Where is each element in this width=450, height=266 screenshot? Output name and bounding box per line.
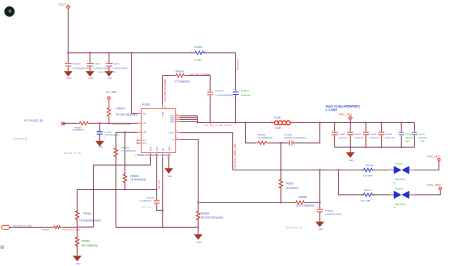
svg-text:1: 1 bbox=[191, 51, 192, 53]
svg-text:PW_PXGA: PW_PXGA bbox=[236, 59, 239, 70]
svg-text:2: 2 bbox=[410, 193, 411, 195]
svg-text:2: 2 bbox=[113, 159, 114, 161]
svg-text:PD0009: PD0009 bbox=[395, 188, 404, 190]
svg-text:PW_PGOOD_1V05: PW_PGOOD_1V05 bbox=[63, 229, 81, 231]
svg-text:GND: GND bbox=[88, 78, 93, 80]
svg-text:22UF 6.3V: 22UF 6.3V bbox=[385, 137, 395, 139]
svg-text:2: 2 bbox=[154, 206, 155, 208]
svg-text:PL0002: PL0002 bbox=[194, 47, 203, 49]
svg-text:Close to IC: Close to IC bbox=[64, 151, 81, 155]
resistor R62 divider lower bbox=[74, 227, 98, 256]
capacitor C74 10uF (blue, in line) bbox=[233, 89, 252, 98]
svg-text:GND: GND bbox=[197, 242, 202, 244]
inductor L2 PL0002 bbox=[191, 47, 206, 62]
wire bank bottom rail bbox=[335, 146, 415, 148]
resistor R148 row1 bbox=[361, 165, 375, 177]
capacitor bank C87 bbox=[378, 123, 394, 148]
wire VOUT pin to row1 bbox=[180, 133, 439, 170]
svg-text:PXG_VDD: PXG_VDD bbox=[427, 183, 440, 187]
capacitor bank C83 bbox=[347, 123, 363, 148]
wire VIN drop to IC top pin bbox=[161, 76, 163, 105]
resistor R61 divider upper bbox=[74, 209, 101, 227]
svg-text:2: 2 bbox=[233, 97, 234, 99]
svg-text:1: 1 bbox=[65, 61, 66, 63]
resistor R45 4.7ohm bbox=[174, 72, 211, 84]
svg-text:Close to IC: Close to IC bbox=[141, 206, 152, 209]
svg-text:VOS: VOS bbox=[157, 146, 159, 151]
no-connect X marks NC1 NC2 bbox=[137, 140, 139, 144]
svg-text:DOWN CONVERTER 1.05V@4A: DOWN CONVERTER 1.05V@4A bbox=[137, 154, 172, 157]
svg-text:PR0061: PR0061 bbox=[83, 213, 92, 215]
svg-text:3: 3 bbox=[139, 122, 140, 124]
svg-text:0.47UF(0603)16V: 0.47UF(0603)16V bbox=[72, 68, 90, 70]
capacitor C75 en (blue) bbox=[96, 123, 120, 148]
svg-text:L/M: L/M bbox=[143, 132, 147, 134]
svg-text:1: 1 bbox=[113, 146, 114, 148]
svg-text:PR0060: PR0060 bbox=[299, 197, 308, 199]
svg-text:PC0087: PC0087 bbox=[385, 134, 392, 136]
svg-text:12: 12 bbox=[176, 131, 178, 133]
capacitor bank C110 (blue) bbox=[399, 123, 414, 148]
svg-text:1: 1 bbox=[286, 141, 287, 143]
svg-text:2: 2 bbox=[293, 141, 294, 143]
wire SW node line bbox=[197, 122, 414, 124]
svg-text:PVIN: PVIN bbox=[162, 111, 164, 116]
svg-text:TB OHM (TBD)(0402): TB OHM (TBD)(0402) bbox=[116, 114, 139, 116]
svg-text:PR0049: PR0049 bbox=[121, 147, 130, 149]
wire VCC to EN pin bbox=[132, 53, 138, 114]
resistor R60 10K bbox=[294, 197, 315, 208]
svg-text:TB OHM (TBD)(0402): TB OHM (TBD)(0402) bbox=[201, 217, 224, 219]
svg-text:PW_PXGVDD_EN: PW_PXGVDD_EN bbox=[112, 124, 131, 126]
page corner mark bbox=[1, 246, 5, 250]
wire gnd rail bottom bbox=[116, 226, 198, 228]
wire SW pin bundle bbox=[180, 116, 198, 123]
capacitor bank C84 bbox=[363, 123, 379, 148]
svg-text:6: 6 bbox=[167, 158, 168, 160]
capacitor C81 22pF bridge bbox=[284, 134, 306, 145]
svg-text:PW_VOS: PW_VOS bbox=[159, 180, 161, 189]
svg-text:22PF/50V (0402),NPO: 22PF/50V (0402),NPO bbox=[284, 137, 306, 139]
wire top rail bbox=[67, 52, 235, 54]
svg-text:PC0073: PC0073 bbox=[216, 91, 225, 93]
svg-text:PW_PXGA_VDDA_SNS: PW_PXGA_VDDA_SNS bbox=[234, 143, 237, 168]
svg-text:1: 1 bbox=[271, 121, 272, 123]
svg-text:22UF 6.3V: 22UF 6.3V bbox=[370, 137, 380, 139]
resistor R44 pull-up bbox=[106, 92, 138, 123]
svg-text:PC0081: PC0081 bbox=[284, 134, 293, 136]
svg-text:GND: GND bbox=[67, 78, 72, 80]
svg-text:PR0063: PR0063 bbox=[130, 176, 139, 178]
IC U1 pin names bbox=[143, 111, 176, 151]
resistor R64 to gnd bbox=[196, 203, 224, 228]
wire pin5 stair to pgood rail bbox=[77, 157, 150, 228]
svg-text:TB OHM(0603): TB OHM(0603) bbox=[121, 151, 136, 153]
capacitor C86 pgood bbox=[316, 203, 343, 231]
svg-text:2: 2 bbox=[317, 207, 318, 209]
resistor R147 row2 bbox=[361, 190, 375, 202]
svg-text:PR0045: PR0045 bbox=[176, 72, 185, 74]
resistor R63 on L/M tap bbox=[122, 132, 146, 189]
svg-text:2: 2 bbox=[104, 137, 105, 139]
wire L/M line bbox=[116, 131, 137, 133]
svg-text:2: 2 bbox=[205, 51, 206, 53]
svg-text:GND: GND bbox=[318, 229, 323, 231]
svg-text:10UF/16V: 10UF/16V bbox=[241, 95, 251, 97]
connector pgood input bbox=[2, 225, 33, 229]
svg-text:4.7 OHM(0603): 4.7 OHM(0603) bbox=[174, 82, 190, 84]
svg-text:PC0086: PC0086 bbox=[325, 210, 334, 212]
diode D8 row1 bbox=[389, 163, 414, 184]
svg-text:TB OHM(0402): TB OHM(0402) bbox=[258, 137, 273, 139]
IC U1 pin numbers bbox=[139, 106, 179, 159]
svg-text:PC0006: PC0006 bbox=[72, 64, 81, 66]
capacitor bank C82 bbox=[332, 123, 348, 148]
svg-text:2: 2 bbox=[208, 97, 209, 99]
svg-text:560 OHM: 560 OHM bbox=[361, 200, 371, 202]
resistor R49 on L/M drop bbox=[113, 132, 136, 227]
IC U1 pin stubs bbox=[137, 105, 179, 157]
terminal VCC bbox=[66, 5, 70, 9]
svg-text:PW_SW_PXGA_VDDA: PW_SW_PXGA_VDDA bbox=[204, 124, 232, 127]
svg-text:PC0082: PC0082 bbox=[338, 134, 345, 136]
svg-text:PW_PWR_FILTERED: PW_PWR_FILTERED bbox=[190, 74, 212, 76]
svg-text:11: 11 bbox=[176, 138, 178, 140]
IC U1 description text bbox=[135, 154, 172, 157]
svg-text:PR0065: PR0065 bbox=[42, 229, 50, 231]
op IC U1 body bbox=[141, 103, 175, 152]
svg-text:GND: GND bbox=[349, 160, 354, 162]
svg-text:0.47UF/50 (0402): 0.47UF/50 (0402) bbox=[325, 214, 342, 216]
capacitor bank C111 (blue) bbox=[412, 123, 427, 148]
svg-text:22UF 6.3V: 22UF 6.3V bbox=[338, 137, 348, 139]
net VCC label bbox=[58, 2, 66, 6]
svg-text:PC0111: PC0111 bbox=[418, 134, 425, 136]
svg-text:PR0147: PR0147 bbox=[364, 190, 373, 192]
capacitor C72 0.1uF bbox=[86, 53, 109, 80]
svg-text:PC0072: PC0072 bbox=[93, 64, 102, 66]
svg-text:PG: PG bbox=[171, 139, 174, 141]
wire VIN sub-rail bbox=[162, 75, 210, 77]
net label PXG_VDD top bbox=[339, 113, 353, 123]
net label PXG_VDD row2 bbox=[427, 183, 441, 190]
svg-text:1: 1 bbox=[348, 130, 349, 132]
wire pgood in line bbox=[9, 226, 77, 228]
wire VCC drop bbox=[67, 9, 69, 53]
svg-text:0.47UF(0603)16V: 0.47UF(0603)16V bbox=[216, 95, 234, 97]
svg-text:PX_PXGVDD_EN: PX_PXGVDD_EN bbox=[25, 120, 44, 122]
svg-text:EN: EN bbox=[143, 113, 146, 115]
capacitor C71 0.1uF bbox=[105, 53, 128, 80]
svg-text:30.1K(0402): 30.1K(0402) bbox=[286, 188, 299, 190]
svg-text:PR0058: PR0058 bbox=[258, 134, 267, 136]
svg-text:2: 2 bbox=[196, 222, 197, 224]
svg-text:1: 1 bbox=[87, 61, 88, 63]
svg-text:560 OHM(0402): 560 OHM(0402) bbox=[82, 245, 99, 247]
no-connect X terminal EN bbox=[61, 122, 66, 125]
svg-text:PW_PWR_FILTERED: PW_PWR_FILTERED bbox=[165, 79, 167, 102]
resistor R58 bridge bbox=[256, 134, 273, 144]
svg-text:1: 1 bbox=[391, 193, 392, 195]
resistor R57 30.1K vertical bbox=[278, 143, 298, 203]
svg-text:GND: GND bbox=[167, 176, 172, 178]
svg-text:1: 1 bbox=[106, 61, 107, 63]
wire row2 bbox=[339, 170, 441, 195]
svg-text:GND: GND bbox=[107, 78, 112, 80]
svg-text:0 OHM(0402): 0 OHM(0402) bbox=[72, 130, 84, 132]
svg-text:PC0084: PC0084 bbox=[370, 134, 377, 136]
wire snubber drop bbox=[209, 76, 211, 123]
svg-text:TB OHM(0603): TB OHM(0603) bbox=[130, 179, 146, 181]
svg-text:PR0062: PR0062 bbox=[82, 241, 91, 243]
svg-text:4.7UH: 4.7UH bbox=[195, 60, 202, 62]
diode D9 row2 bbox=[389, 188, 414, 209]
ground for R64 bbox=[194, 227, 202, 244]
svg-text:0.1UF(0402): 0.1UF(0402) bbox=[139, 200, 152, 202]
svg-text:TBD: TBD bbox=[420, 141, 424, 143]
svg-text:TBD/0402: TBD/0402 bbox=[418, 137, 427, 139]
svg-text:2: 2 bbox=[292, 121, 293, 123]
svg-text:PR0057: PR0057 bbox=[286, 183, 295, 185]
svg-text:PC0083: PC0083 bbox=[354, 134, 361, 136]
svg-text:0.1UF/50 (0402): 0.1UF/50 (0402) bbox=[104, 135, 119, 137]
svg-text:1: 1 bbox=[74, 209, 75, 211]
svg-text:VOUT: VOUT bbox=[169, 133, 176, 135]
svg-text:ON: ON bbox=[143, 123, 147, 125]
ground bank bbox=[346, 147, 354, 162]
logo avatar circle bbox=[4, 6, 14, 16]
svg-text:7: 7 bbox=[139, 131, 140, 133]
svg-text:PXG_VDD: PXG_VDD bbox=[427, 154, 440, 158]
svg-text:+1V_VDD: +1V_VDD bbox=[106, 92, 117, 94]
svg-text:PR0148: PR0148 bbox=[365, 165, 374, 167]
capacitor C85 vos bbox=[139, 197, 162, 210]
svg-text:1: 1 bbox=[74, 235, 75, 237]
inductor L6 1.0uH bbox=[271, 118, 293, 130]
svg-text:TBD: TBD bbox=[405, 141, 409, 143]
ground divider bbox=[73, 256, 81, 266]
net label PXG_VDD row1 bbox=[427, 154, 440, 161]
svg-text:1: 1 bbox=[391, 168, 392, 170]
svg-text:= 1.05V: = 1.05V bbox=[325, 108, 338, 112]
svg-text:TBD(0402): TBD(0402) bbox=[395, 179, 406, 181]
svg-text:GND: GND bbox=[76, 264, 81, 266]
wire VOS pin drop bbox=[156, 157, 158, 201]
svg-text:PR0064: PR0064 bbox=[201, 214, 210, 216]
svg-text:GND: GND bbox=[98, 147, 103, 149]
svg-text:1: 1 bbox=[233, 89, 234, 91]
capacitor C6 0.47uF bbox=[64, 53, 90, 80]
svg-text:560 OHM: 560 OHM bbox=[363, 176, 373, 178]
svg-text:PD0008: PD0008 bbox=[395, 163, 404, 165]
ground IC pgnd pin bbox=[165, 157, 173, 178]
resistor R65 pgood series bbox=[42, 226, 81, 232]
text Vout formula bbox=[325, 104, 359, 112]
svg-text:1: 1 bbox=[278, 177, 279, 179]
svg-text:1: 1 bbox=[122, 172, 123, 174]
svg-text:16: 16 bbox=[176, 114, 178, 116]
svg-text:2: 2 bbox=[410, 168, 411, 170]
svg-text:GND: GND bbox=[169, 146, 171, 151]
svg-text:TB OHM(TBD)(0402): TB OHM(TBD)(0402) bbox=[79, 221, 101, 223]
wire PG pin to FB line bbox=[180, 140, 320, 203]
svg-text:5: 5 bbox=[149, 158, 150, 160]
wire RC bridge loop bbox=[246, 123, 320, 143]
svg-text:10.0K OHM(0402): 10.0K OHM(0402) bbox=[296, 206, 315, 208]
capacitor C73 0.47uF (in line) bbox=[207, 89, 233, 98]
svg-text:PC0071: PC0071 bbox=[112, 64, 121, 66]
svg-text:1: 1 bbox=[196, 209, 197, 211]
wire fb sense line bbox=[77, 189, 157, 209]
svg-text:10: 10 bbox=[164, 106, 166, 108]
svg-text:22UF 6.3V: 22UF 6.3V bbox=[354, 137, 364, 139]
svg-text:TBD(0402): TBD(0402) bbox=[395, 204, 406, 206]
svg-text:PC0085: PC0085 bbox=[146, 197, 155, 199]
resistor R43 0ohm EN bbox=[72, 122, 90, 132]
svg-text:1.0UH: 1.0UH bbox=[275, 128, 282, 130]
svg-text:VCC?: VCC? bbox=[58, 2, 66, 6]
wire rail corner down to SW node bbox=[235, 53, 237, 123]
svg-text:PU0001: PU0001 bbox=[142, 103, 151, 106]
svg-text:4: 4 bbox=[139, 112, 140, 114]
wire EN line bbox=[62, 122, 137, 124]
svg-text:TBD/0402: TBD/0402 bbox=[405, 137, 414, 139]
svg-text:Close to IC: Close to IC bbox=[285, 225, 302, 229]
wire FB pin drop bbox=[162, 157, 164, 228]
svg-text:1: 1 bbox=[208, 89, 209, 91]
svg-text:Close to IC: Close to IC bbox=[13, 136, 27, 140]
svg-text:PC0110: PC0110 bbox=[405, 134, 412, 136]
wire row1 pgood drop bbox=[319, 170, 321, 203]
svg-text:Close to IC: Close to IC bbox=[98, 70, 117, 74]
svg-text:2: 2 bbox=[106, 117, 107, 119]
svg-text:PR0044: PR0044 bbox=[116, 108, 125, 110]
svg-text:PL006: PL006 bbox=[274, 118, 281, 120]
svg-text:PC0074: PC0074 bbox=[241, 91, 250, 93]
